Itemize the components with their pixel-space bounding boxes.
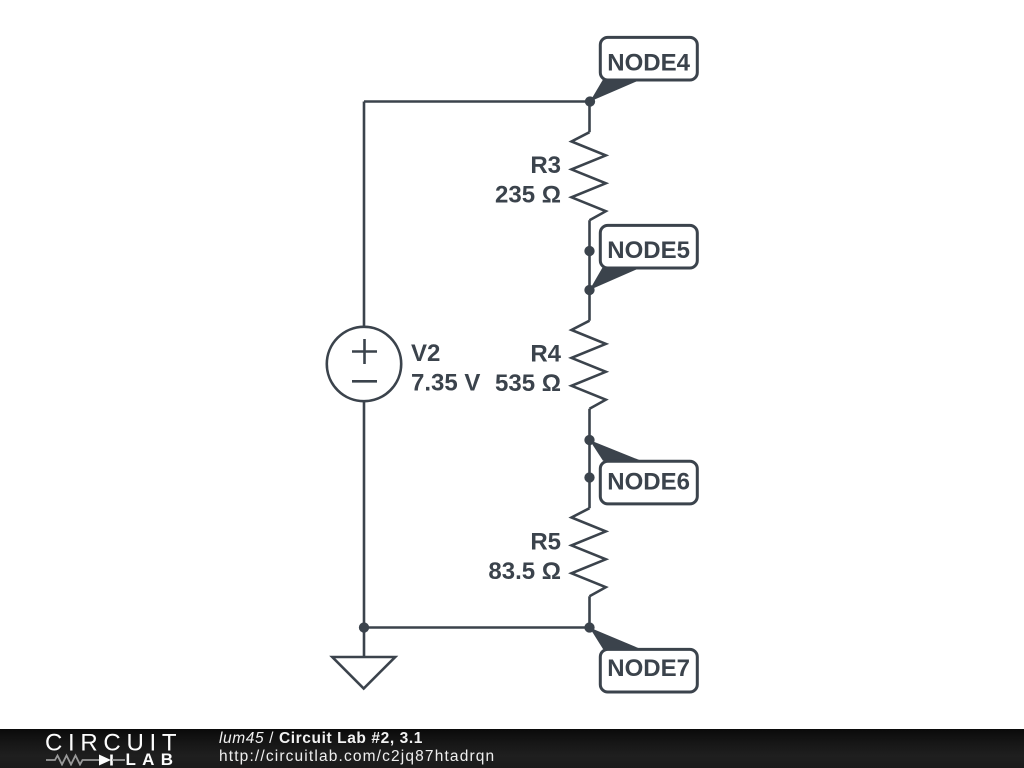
V2 minus sign (352, 380, 377, 383)
footer url line (219, 748, 495, 766)
svg-text:535 Ω: 535 Ω (495, 370, 561, 397)
svg-text:NODE7: NODE7 (607, 655, 690, 682)
node flag NODE5 box (600, 225, 697, 268)
junction node dot top (NODE4) (585, 96, 595, 106)
node dot R3 bottom (584, 246, 594, 256)
node flag NODE7 tail (590, 628, 641, 650)
wire R4 to NODE6 (588, 409, 591, 478)
node flag NODE4 box (600, 37, 697, 80)
V2 plus sign (352, 339, 377, 381)
wire left vertical upper (363, 102, 366, 328)
wire NODE6 to R5 (588, 478, 591, 509)
logo resistor zigzag (46, 756, 99, 765)
wire left vertical lower (363, 401, 366, 628)
node flag NODE5 tail (590, 268, 642, 291)
node flag NODE6 tail (590, 440, 641, 461)
node dot R5 top (584, 472, 594, 482)
wire R5 to bottom (588, 596, 591, 627)
node flag NODE4 tail (590, 80, 641, 102)
footer bar (0, 729, 1024, 768)
junction dot bottom left at ground (359, 622, 369, 632)
svg-text:NODE4: NODE4 (607, 49, 690, 76)
logo diode (99, 755, 111, 766)
wire NODE5 to R4 (588, 290, 591, 321)
resistor R5 (572, 508, 606, 596)
node dot R4 top (NODE5) (584, 285, 594, 295)
wire right lead into R3 (588, 102, 591, 133)
svg-text:7.35 V: 7.35 V (411, 370, 480, 397)
wire bottom horizontal (364, 626, 589, 629)
svg-text:NODE5: NODE5 (607, 237, 690, 264)
svg-text:LAB: LAB (126, 750, 180, 766)
svg-text:235 Ω: 235 Ω (495, 182, 561, 209)
node dot R4 bottom (NODE6) (584, 435, 594, 445)
node flag NODE7 box (600, 649, 697, 692)
resistor R4 (572, 321, 606, 409)
footer title line (219, 730, 423, 748)
svg-text:R5: R5 (530, 529, 561, 556)
svg-text:R3: R3 (530, 152, 561, 179)
svg-text:R4: R4 (530, 341, 561, 368)
node flag NODE6 box (600, 461, 697, 504)
node dot bottom right (NODE7) (584, 622, 594, 632)
wire top horizontal (364, 100, 590, 103)
wire ground stub (363, 628, 366, 658)
voltage source V2 circle (327, 327, 401, 401)
CircuitLab logo (42, 730, 192, 766)
resistor R3 (572, 132, 606, 220)
ground symbol (332, 657, 395, 689)
svg-text:V2: V2 (411, 340, 440, 367)
wire R3 to NODE5 (588, 220, 591, 290)
svg-text:83.5 Ω: 83.5 Ω (488, 558, 561, 585)
svg-text:NODE6: NODE6 (607, 468, 690, 495)
